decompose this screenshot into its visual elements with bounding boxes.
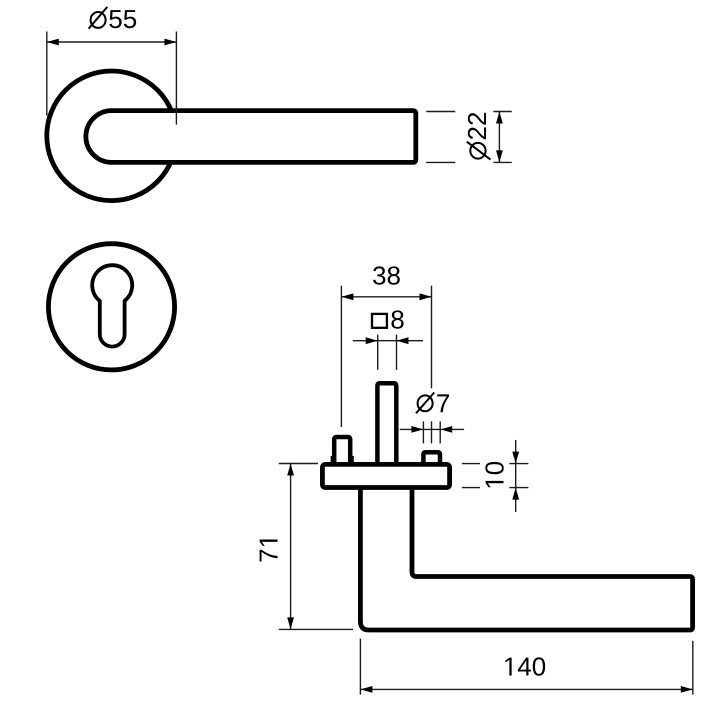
dimension 38 text: [373, 266, 400, 284]
handle grip bar (top view): [86, 111, 416, 163]
dimension 8 text: [391, 310, 403, 328]
dimension 10 arrow top (pointing down): [512, 452, 519, 464]
dimension 10 extension lines bottom: [462, 487, 480, 489]
dimension 71 extension line top: [279, 463, 318, 465]
escutcheon circle (key rose): [48, 244, 174, 370]
dimension 71 text: [260, 540, 278, 562]
dimension Ø22 arrow bottom: [496, 150, 503, 162]
dimension 8 line: [353, 340, 423, 342]
dimension Ø7 arrow left (pointing right): [411, 426, 423, 433]
dimension Ø7 extension lines: [422, 421, 424, 443]
dimension 140 extension line right: [692, 641, 694, 695]
dimension Ø55 extension line left: [46, 32, 48, 116]
left fixing screw: [334, 437, 350, 468]
dimension Ø7 text: [437, 394, 449, 412]
handle side view: lever L-shape: [360, 487, 692, 630]
dimension 71 arrow top: [287, 464, 294, 476]
dimension Ø22 arrow top: [496, 112, 503, 124]
dimension 8 arrow right (pointing left): [397, 337, 409, 344]
dimension 140 line: [360, 688, 692, 690]
dimension Ø22 text: [468, 113, 486, 139]
dimension 71 line: [290, 464, 292, 630]
dimension 38 extension line left: [340, 286, 342, 427]
dimension 140 arrow right: [681, 686, 693, 693]
euro profile keyhole: [92, 265, 132, 346]
dimension 8 extension lines: [377, 335, 379, 370]
left fixing screw collar bumps: [331, 456, 337, 462]
dimension Ø7 line: [400, 428, 464, 430]
dimension 38 arrow left: [341, 293, 353, 300]
dimension 140 text: [505, 657, 545, 675]
square spindle shaft: [377, 383, 396, 468]
dimension 140 extension line left: [359, 639, 361, 695]
right fixing screw: [423, 452, 440, 468]
dimension 38 extension line right: [431, 286, 433, 389]
dimension Ø55 extension line right: [175, 32, 177, 125]
dimension Ø55 arrow right: [164, 39, 176, 46]
dimension Ø7 arrow right (pointing left): [440, 426, 452, 433]
dimension 8 arrow left (pointing right): [366, 337, 378, 344]
dimension Ø55 arrow left: [47, 39, 59, 46]
dimension Ø55 line: [47, 41, 177, 43]
dimension Ø22 line: [498, 112, 500, 163]
dimension Ø22 extension lines bottom: [426, 161, 455, 163]
dimension 10 extension lines top: [462, 463, 480, 465]
dimension 71 arrow bottom: [287, 617, 294, 629]
dimension 10 arrow bottom (pointing up): [512, 488, 519, 500]
dimension 10 line: [515, 440, 517, 512]
dimension Ø22 extension lines top: [426, 111, 455, 113]
rose circle (top view): [47, 71, 177, 201]
dimension 38 arrow right: [420, 293, 432, 300]
dimension square-8 symbol: [372, 314, 387, 328]
rose plate (side view): [322, 464, 449, 487]
dimension 38 line: [341, 296, 431, 298]
dimension 140 arrow left: [360, 686, 372, 693]
dimension 10 text: [485, 462, 503, 487]
dimension Ø55 text: [109, 10, 136, 28]
dimension 71 extension line bottom: [279, 628, 353, 630]
